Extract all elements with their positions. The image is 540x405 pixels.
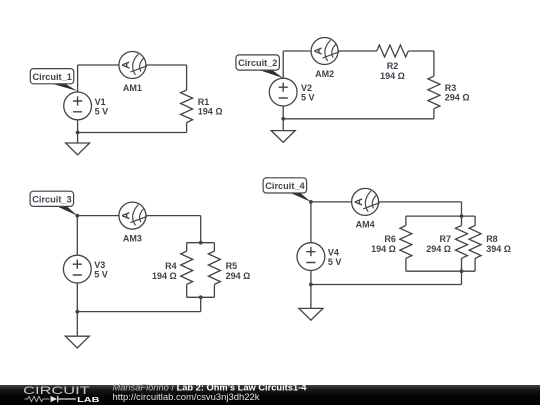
svg-text:194 Ω: 194 Ω bbox=[198, 107, 223, 117]
svg-text:Circuit_2: Circuit_2 bbox=[238, 58, 277, 68]
svg-text:V2: V2 bbox=[301, 83, 312, 93]
svg-text:MarisaFiorino / Lab 2: Ohm's L: MarisaFiorino / Lab 2: Ohm's Law Circuit… bbox=[113, 382, 308, 392]
svg-text:194 Ω: 194 Ω bbox=[380, 71, 405, 81]
svg-text:R7: R7 bbox=[439, 234, 451, 244]
svg-text:294 Ω: 294 Ω bbox=[226, 271, 251, 281]
svg-text:AM2: AM2 bbox=[315, 69, 334, 79]
svg-text:V4: V4 bbox=[328, 247, 339, 257]
svg-text:394 Ω: 394 Ω bbox=[486, 244, 511, 254]
svg-text:Circuit_4: Circuit_4 bbox=[265, 181, 305, 191]
svg-text:V3: V3 bbox=[94, 260, 105, 270]
svg-text:R2: R2 bbox=[387, 61, 399, 71]
svg-text:R4: R4 bbox=[165, 261, 177, 271]
svg-text:LAB: LAB bbox=[77, 395, 100, 404]
svg-text:5 V: 5 V bbox=[328, 257, 342, 267]
svg-text:294 Ω: 294 Ω bbox=[426, 244, 451, 254]
svg-text:194 Ω: 194 Ω bbox=[152, 271, 177, 281]
svg-text:AM3: AM3 bbox=[123, 233, 142, 243]
svg-text:194 Ω: 194 Ω bbox=[371, 244, 396, 254]
svg-text:R6: R6 bbox=[384, 234, 396, 244]
svg-text:R5: R5 bbox=[226, 261, 238, 271]
svg-text:5 V: 5 V bbox=[95, 107, 109, 117]
svg-text:AM4: AM4 bbox=[356, 220, 375, 230]
svg-text:5 V: 5 V bbox=[94, 270, 108, 280]
svg-text:R1: R1 bbox=[198, 97, 210, 107]
svg-text:Circuit_1: Circuit_1 bbox=[33, 72, 72, 82]
svg-text:294 Ω: 294 Ω bbox=[445, 93, 470, 103]
svg-text:R8: R8 bbox=[486, 234, 498, 244]
svg-text:V1: V1 bbox=[95, 97, 106, 107]
svg-text:http://circuitlab.com/csvu3nj3: http://circuitlab.com/csvu3nj3dh22k bbox=[113, 392, 260, 402]
svg-text:R3: R3 bbox=[445, 83, 457, 93]
svg-text:5 V: 5 V bbox=[301, 93, 315, 103]
svg-text:AM1: AM1 bbox=[123, 83, 142, 93]
svg-text:Circuit_3: Circuit_3 bbox=[32, 195, 71, 205]
